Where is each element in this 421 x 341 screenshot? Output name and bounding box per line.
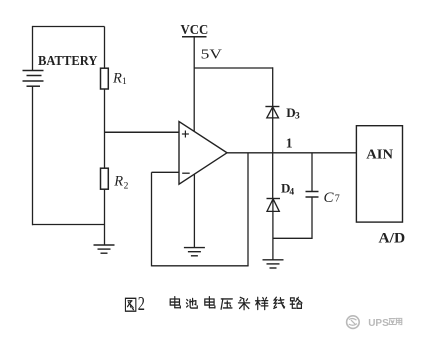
resistor R2 — [101, 168, 109, 189]
label BATTERY — [38, 54, 98, 69]
wire junction to op-amp + input — [105, 131, 180, 133]
ground battery divider — [94, 245, 115, 253]
label D3 — [286, 105, 300, 121]
wire feedback left leg — [151, 172, 153, 266]
ground op-amp — [184, 248, 205, 256]
svg-text:1: 1 — [286, 136, 293, 151]
svg-text:4: 4 — [289, 188, 294, 198]
svg-text:2: 2 — [138, 294, 145, 315]
VCC rail bar — [182, 36, 207, 38]
svg-text:AIN: AIN — [366, 147, 393, 162]
wire battery left upper — [32, 26, 34, 71]
svg-text:UPS: UPS — [368, 318, 389, 329]
label AIN — [366, 147, 393, 162]
label R1 — [112, 70, 127, 87]
label D4 — [281, 181, 294, 198]
wire VCC branch right — [194, 67, 273, 69]
ground D4 — [263, 260, 284, 268]
wire op-amp ground stem — [193, 174, 195, 248]
svg-text:5V: 5V — [201, 47, 222, 62]
wire battery left lower — [32, 86, 34, 225]
wire output down to D4 — [272, 153, 274, 199]
svg-text:3: 3 — [295, 111, 300, 121]
label 5V — [201, 47, 222, 62]
svg-text:7: 7 — [335, 194, 340, 205]
svg-text:A/D: A/D — [379, 230, 406, 246]
op-amp U1 — [179, 122, 227, 185]
diode D3 — [265, 107, 279, 153]
label R2 — [113, 173, 128, 191]
svg-text:BATTERY: BATTERY — [38, 54, 98, 69]
wire down to D3 — [272, 67, 274, 106]
wire bottom of battery loop — [33, 224, 105, 226]
label A/D — [379, 230, 406, 246]
wire feedback to - input — [152, 171, 180, 173]
logo UPS应用 watermark — [347, 316, 402, 329]
svg-text:1: 1 — [122, 77, 127, 87]
svg-text:R: R — [112, 70, 122, 86]
wire R branch top — [104, 27, 106, 69]
wire VCC down to op-amp — [193, 37, 195, 131]
caption 图2 电池电压采样线路 — [125, 294, 302, 315]
svg-text:2: 2 — [124, 181, 129, 191]
wire D4 C7 bottom junction — [273, 237, 312, 239]
IC AIN box — [356, 126, 402, 222]
wire R2 bottom to ground — [104, 189, 106, 245]
battery BATTERY cells — [23, 71, 44, 87]
capacitor C7 — [306, 153, 319, 239]
svg-text:C: C — [324, 190, 335, 206]
resistor R1 — [101, 68, 109, 89]
label 1 node — [286, 136, 293, 151]
label VCC — [181, 23, 209, 38]
wire feedback bottom leg — [152, 265, 249, 267]
wire R1 to junction to R2 — [104, 89, 106, 169]
svg-text:R: R — [113, 173, 123, 189]
diode D4 — [267, 199, 281, 260]
label C7 — [324, 190, 340, 206]
wire op-amp output — [227, 152, 356, 154]
wire feedback right leg — [247, 153, 249, 266]
wire top of battery loop — [33, 26, 105, 28]
svg-text:VCC: VCC — [181, 23, 209, 38]
